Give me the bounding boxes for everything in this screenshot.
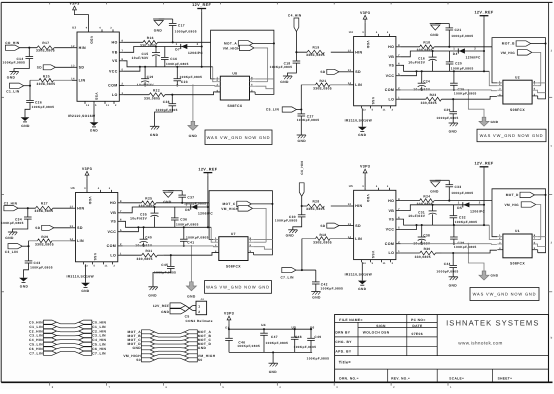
svg-text:5: 5 bbox=[372, 108, 374, 111]
bus1 row C2_HIN (right flag) bbox=[79, 329, 107, 333]
ground IC VSS (block3 mid-left) bbox=[81, 264, 90, 293]
wire loop to U pin1 bbox=[492, 47, 497, 83]
svg-text:6: 6 bbox=[534, 88, 536, 91]
capacitor C36 100KpF,0805 (bootstrap) bbox=[171, 207, 199, 227]
ground C34 bbox=[5, 232, 17, 240]
input flag C4_HIN (vertical) bbox=[288, 14, 302, 32]
svg-text:C45: C45 bbox=[161, 263, 168, 267]
svg-text:GND: GND bbox=[430, 33, 439, 37]
svg-text:IR2110,SO16W: IR2110,SO16W bbox=[345, 119, 373, 123]
bus1 row C4_HIN (right flag) bbox=[79, 338, 107, 342]
wire 12V_REF down bbox=[483, 170, 485, 226]
svg-text:VS: VS bbox=[389, 64, 395, 68]
wire SD bbox=[339, 71, 349, 73]
junction VCC/rail bbox=[139, 66, 141, 68]
bus2 row VM_HIGH (left flag) bbox=[123, 354, 154, 358]
flag MOT_D bbox=[506, 192, 535, 197]
wire VS bbox=[401, 65, 490, 71]
bus2 row MOT_B (right flag) bbox=[184, 334, 211, 338]
svg-text:MOT_D: MOT_D bbox=[506, 193, 519, 197]
wire COM to U pin3 bbox=[492, 243, 497, 246]
svg-text:C23: C23 bbox=[181, 80, 188, 84]
svg-text:c: c bbox=[551, 145, 553, 148]
svg-text:330,0805: 330,0805 bbox=[137, 257, 153, 261]
resistor R19 330E,0805 (HIN) bbox=[306, 46, 325, 57]
svg-text:6: 6 bbox=[534, 241, 536, 244]
bus2 row MOT_B (left flag) bbox=[128, 334, 155, 338]
bus1 row C5_LIN (right flag) bbox=[79, 342, 106, 346]
svg-text:100KpF,0805: 100KpF,0805 bbox=[32, 105, 55, 109]
svg-text:C33: C33 bbox=[455, 185, 462, 189]
wire U pin5 step bbox=[253, 252, 255, 255]
capacitor C27 100KpF,0805 (LIN filter) bbox=[297, 110, 320, 136]
svg-text:VCC: VCC bbox=[386, 74, 395, 78]
svg-text:GND: GND bbox=[150, 133, 159, 137]
svg-text:100KpF,0805: 100KpF,0805 bbox=[266, 341, 289, 345]
svg-text:LIN: LIN bbox=[355, 83, 362, 87]
ground C27 bbox=[297, 135, 307, 143]
svg-text:C0_HIN: C0_HIN bbox=[29, 320, 43, 324]
wire VCC bbox=[401, 71, 417, 75]
svg-text:2: 2 bbox=[215, 240, 217, 243]
wire LIN flag bbox=[22, 245, 28, 247]
svg-text:100KpF,0805: 100KpF,0805 bbox=[451, 66, 474, 70]
wire COM bbox=[401, 243, 492, 245]
svg-text:COM: COM bbox=[385, 242, 395, 246]
bus2 row MOT_A (right flag) bbox=[184, 330, 211, 334]
svg-text:VS: VS bbox=[112, 59, 118, 63]
gate driver IC U3 IR2110,SO16W bbox=[77, 32, 119, 101]
wire HIN input bbox=[302, 196, 307, 206]
svg-text:DRN BY: DRN BY bbox=[335, 331, 350, 335]
capacitor C46 100KpF,0805 (V3P3 filter) bbox=[225, 329, 260, 352]
svg-text:13: 13 bbox=[85, 264, 89, 267]
svg-text:3: 3 bbox=[215, 244, 217, 247]
svg-text:1: 1 bbox=[453, 48, 455, 51]
bus1 row C2_HIN (left flag) bbox=[29, 329, 57, 333]
svg-text:11: 11 bbox=[106, 104, 110, 107]
svg-text:WOLOCH DSN: WOLOCH DSN bbox=[363, 331, 390, 335]
ground IC VSS (block4 mid-right) bbox=[358, 262, 367, 291]
svg-text:12V_REF: 12V_REF bbox=[192, 3, 211, 7]
svg-text:WAS VW_GND NOW GND: WAS VW_GND NOW GND bbox=[206, 285, 270, 290]
ground COM (block4 mid-right) arrow bbox=[479, 271, 499, 280]
wire HO to loop bbox=[434, 200, 492, 202]
svg-text:GND: GND bbox=[280, 80, 289, 84]
bus2 row nc (left flag) bbox=[142, 350, 155, 354]
junction VB/12V_REF bbox=[201, 45, 203, 47]
svg-text:330E,0805: 330E,0805 bbox=[37, 82, 56, 86]
capacitor C19 10uF/63V (VCC) bbox=[137, 67, 155, 87]
bus1 row C6_HIN (left flag) bbox=[29, 347, 57, 351]
junction C49 bbox=[310, 328, 312, 330]
svg-text:GND: GND bbox=[154, 28, 163, 32]
capacitor C21 1000pF,0805 bbox=[435, 24, 473, 47]
svg-text:2: 2 bbox=[217, 79, 219, 82]
bus2 wire GND bbox=[155, 347, 185, 349]
svg-text:V3P3: V3P3 bbox=[360, 11, 370, 15]
svg-text:V3P3: V3P3 bbox=[82, 167, 92, 171]
border zone ticks right bbox=[1, 50, 552, 340]
svg-text:GND: GND bbox=[358, 287, 367, 291]
junction C23 bbox=[176, 66, 178, 68]
svg-text:U4: U4 bbox=[261, 323, 266, 327]
resistor R21 330E,0805 (LIN) bbox=[313, 79, 332, 91]
svg-text:5: 5 bbox=[534, 247, 536, 250]
capacitor C32 100KpF,0805 (bootstrap) bbox=[450, 205, 478, 225]
svg-text:LIN: LIN bbox=[355, 237, 362, 241]
wire 12V_REF down bbox=[207, 175, 209, 227]
svg-text:10uF/63V: 10uF/63V bbox=[132, 56, 150, 60]
bus2 wire MOT_D bbox=[155, 343, 185, 345]
wire VM vertical to pin7 bbox=[538, 85, 541, 87]
svg-text:VM_HIGH: VM_HIGH bbox=[223, 46, 241, 50]
bus2 wire MOT_C bbox=[155, 339, 185, 342]
input flag SD bbox=[37, 65, 56, 70]
svg-text:C5_LIN: C5_LIN bbox=[29, 343, 43, 347]
svg-text:GND: GND bbox=[286, 234, 295, 238]
svg-text:C19: C19 bbox=[147, 75, 154, 79]
svg-text:R29: R29 bbox=[41, 235, 48, 239]
svg-text:GND: GND bbox=[133, 346, 142, 350]
wire VM_HIGH to U pin7 bbox=[536, 205, 541, 240]
wire U pin5 step bbox=[537, 96, 539, 99]
svg-text:100KpF,0805: 100KpF,0805 bbox=[186, 236, 209, 240]
svg-text:2: 2 bbox=[551, 242, 553, 245]
wire LIN flag bbox=[296, 269, 316, 271]
svg-text:WAS VW_GND NOW GND: WAS VW_GND NOW GND bbox=[480, 133, 544, 138]
svg-text:C3_LIN: C3_LIN bbox=[92, 334, 106, 338]
svg-text:1: 1 bbox=[186, 204, 188, 207]
wire V3P3 to VDD bbox=[364, 22, 366, 34]
ground COM (block3 mid-left) arrow bbox=[186, 282, 196, 299]
svg-text:2: 2 bbox=[474, 48, 476, 51]
svg-text:100KpF,0805: 100KpF,0805 bbox=[321, 287, 344, 291]
wire VCC bbox=[124, 67, 140, 71]
svg-text:2: 2 bbox=[114, 264, 116, 267]
svg-text:GND: GND bbox=[187, 294, 196, 298]
bus2 row MOT_A (left flag) bbox=[128, 330, 155, 334]
wire VS to U pin2 bbox=[489, 225, 497, 239]
wire R to HIN pin bbox=[53, 207, 71, 209]
svg-text:5: 5 bbox=[122, 68, 124, 71]
wire LIN flag bbox=[296, 109, 301, 111]
svg-text:7: 7 bbox=[250, 240, 252, 243]
capacitor C16 100KpF,0805 (bootstrap) bbox=[161, 47, 189, 67]
bus1 row C3_LIN (right flag) bbox=[79, 334, 106, 338]
svg-text:2: 2 bbox=[398, 87, 400, 90]
junction C41 bbox=[183, 226, 185, 228]
wire 12V_REF down bbox=[201, 11, 203, 67]
bus2 wire MOT_B bbox=[155, 336, 185, 337]
wire VM_HIGH to U pin7 bbox=[532, 52, 541, 85]
wire LIN branch bbox=[30, 79, 39, 81]
svg-text:330E,0805: 330E,0805 bbox=[306, 207, 325, 211]
svg-text:GND: GND bbox=[491, 120, 499, 124]
pins U2 bbox=[497, 80, 537, 96]
wire MOT to loop bbox=[251, 203, 272, 205]
wire U pin8 to loop bbox=[538, 82, 546, 84]
svg-text:3: 3 bbox=[499, 241, 501, 244]
wire V3P3 rail bbox=[228, 323, 230, 329]
svg-text:GND: GND bbox=[298, 139, 307, 143]
capacitor C40 10uF/63V (VCC) bbox=[135, 227, 153, 247]
svg-text:GND: GND bbox=[5, 236, 14, 240]
svg-text:330,0805: 330,0805 bbox=[421, 101, 437, 105]
svg-text:6: 6 bbox=[122, 58, 124, 61]
svg-text:HIN: HIN bbox=[355, 50, 362, 54]
svg-text:HO: HO bbox=[388, 45, 394, 49]
svg-text:IR2110,SO16W: IR2110,SO16W bbox=[67, 275, 95, 279]
svg-text:GND: GND bbox=[81, 289, 90, 293]
junction VB/12V_REF bbox=[483, 204, 485, 206]
wire U pin5 step bbox=[537, 250, 539, 253]
bus1 wire C4_HIN bbox=[57, 339, 79, 341]
svg-text:1000pF,0805: 1000pF,0805 bbox=[156, 108, 178, 112]
svg-text:VB: VB bbox=[389, 209, 395, 213]
capacitor C42 100KpF,0805 (LIN filter) bbox=[312, 270, 343, 291]
power V3P3 (block4 mid-right) bbox=[360, 165, 370, 176]
svg-text:6: 6 bbox=[120, 219, 122, 222]
resistor R22 330,0805 (LO gate) bbox=[124, 89, 165, 101]
bus1 row C7_LIN (left flag) bbox=[29, 351, 56, 355]
flag VM_HIGH bbox=[223, 45, 254, 50]
ground C44 bbox=[449, 277, 458, 288]
svg-text:1206IPC: 1206IPC bbox=[470, 210, 485, 214]
svg-text:9: 9 bbox=[362, 31, 364, 34]
svg-text:9: 9 bbox=[84, 187, 86, 190]
wire U pin6 bbox=[538, 244, 546, 247]
svg-text:GND: GND bbox=[449, 130, 458, 134]
component U1 S08FCX (half-bridge FET) bbox=[503, 229, 532, 265]
svg-text:SCALE=: SCALE= bbox=[449, 377, 464, 381]
svg-text:DATE: DATE bbox=[412, 324, 423, 328]
wire VS bbox=[124, 61, 213, 67]
svg-text:DRN. NO.=: DRN. NO.= bbox=[339, 377, 359, 381]
svg-text:SD: SD bbox=[355, 70, 361, 74]
svg-text:CHG. BY: CHG. BY bbox=[335, 340, 352, 344]
input flag C1_LIN bbox=[6, 83, 23, 94]
junction C31/VB bbox=[432, 204, 434, 206]
svg-text:GND: GND bbox=[161, 310, 170, 314]
capacitor C47 100KpF,0805 (V3P3 filter) bbox=[260, 329, 288, 352]
svg-text:C49: C49 bbox=[314, 335, 321, 339]
junction C28/LO bbox=[171, 94, 173, 96]
wire SD bbox=[54, 227, 71, 229]
wire VCC bbox=[123, 227, 139, 231]
svg-text:8: 8 bbox=[120, 200, 122, 203]
wire R to HIN pin bbox=[331, 51, 349, 53]
capacitor C48 100KpF,0805 (V3P3 filter) bbox=[291, 329, 316, 352]
wire U pin8 to loop bbox=[538, 236, 546, 238]
wire HO to loop bbox=[434, 46, 492, 48]
svg-text:MOT_C: MOT_C bbox=[223, 202, 236, 206]
svg-text:VS: VS bbox=[389, 217, 395, 221]
svg-text:VDD: VDD bbox=[90, 36, 94, 44]
svg-text:D5: D5 bbox=[457, 206, 462, 210]
svg-text:HIN: HIN bbox=[355, 204, 362, 208]
svg-text:V3P3: V3P3 bbox=[224, 312, 234, 316]
wire HO loop (MOT net) bbox=[211, 30, 274, 94]
svg-text:3: 3 bbox=[109, 187, 111, 190]
flag GND (CON2) bbox=[161, 309, 185, 314]
capacitor C16 10uF/63V (bootstrap) bbox=[408, 51, 436, 71]
svg-text:3: 3 bbox=[387, 185, 389, 188]
resistor R30 330,0805 (LO gate) bbox=[401, 247, 436, 259]
pins U8 bbox=[215, 76, 255, 92]
bus1 row C7_LIN (right flag) bbox=[79, 351, 106, 355]
power V3P3 (filter rail) bbox=[224, 312, 234, 323]
ground C21 bbox=[430, 24, 441, 37]
svg-text:CO_HIN: CO_HIN bbox=[5, 41, 20, 45]
svg-text:HO: HO bbox=[388, 199, 394, 203]
svg-text:4: 4 bbox=[99, 27, 101, 30]
ground C28 bbox=[150, 126, 159, 137]
svg-text:LIN: LIN bbox=[77, 239, 84, 243]
svg-text:C26: C26 bbox=[35, 100, 42, 104]
wire R to LIN pin bbox=[52, 240, 71, 242]
junction VB/12V_REF bbox=[207, 206, 209, 208]
bus1 wire C5_LIN bbox=[57, 343, 79, 346]
diode D7 1206IPC (bootstrap) bbox=[175, 43, 203, 55]
wire V3P3 to VDD bbox=[364, 176, 366, 188]
svg-text:GND: GND bbox=[449, 283, 458, 287]
bus2 row MOT_D (left flag) bbox=[128, 342, 155, 346]
svg-text:C7_LIN: C7_LIN bbox=[281, 276, 295, 280]
bus2 wire VM_HIGH bbox=[155, 355, 185, 356]
resistor R16 330,0805 (HO gate) bbox=[124, 36, 158, 48]
svg-text:FILE NAME=: FILE NAME= bbox=[339, 318, 363, 322]
svg-text:S0: S0 bbox=[198, 358, 203, 362]
svg-text:100KpF,0805: 100KpF,0805 bbox=[270, 65, 293, 69]
svg-text:1000pF,0805: 1000pF,0805 bbox=[451, 191, 473, 195]
svg-text:HIN: HIN bbox=[79, 46, 86, 50]
svg-text:R19: R19 bbox=[313, 46, 320, 50]
border zone ticks bottom bbox=[50, 382, 448, 385]
svg-text:C36: C36 bbox=[180, 218, 187, 222]
svg-text:7: 7 bbox=[122, 50, 124, 53]
svg-text:1206IPC: 1206IPC bbox=[188, 51, 203, 55]
junction MOT bbox=[544, 42, 546, 44]
svg-text:U2: U2 bbox=[515, 75, 520, 79]
svg-text:SD: SD bbox=[77, 226, 83, 230]
svg-text:2: 2 bbox=[115, 104, 117, 107]
bus1 row C5_LIN (left flag) bbox=[29, 342, 56, 346]
wire SD bbox=[55, 66, 72, 68]
svg-text:7: 7 bbox=[120, 210, 122, 213]
svg-text:1000pF,0805: 1000pF,0805 bbox=[436, 270, 458, 274]
svg-text:C16: C16 bbox=[170, 57, 177, 61]
bus2 row MOT_D (right flag) bbox=[184, 342, 211, 346]
wire U pin6 bbox=[538, 90, 546, 93]
junction C38 bbox=[421, 224, 423, 226]
svg-text:GND: GND bbox=[198, 346, 207, 350]
power 12V_REF (block2 top-right) bbox=[474, 10, 493, 18]
svg-text:VDD: VDD bbox=[366, 41, 370, 49]
svg-text:5: 5 bbox=[534, 93, 536, 96]
note box WAS VW_GND NOW GND (block3 mid-left) bbox=[205, 281, 272, 294]
junction LIN bbox=[300, 108, 302, 110]
svg-text:VDD: VDD bbox=[366, 194, 370, 202]
svg-text:R21: R21 bbox=[320, 79, 327, 83]
input flag C5_LIN bbox=[266, 107, 297, 112]
svg-text:7: 7 bbox=[534, 83, 536, 86]
svg-text:R27: R27 bbox=[41, 202, 48, 206]
svg-text:MOT_B: MOT_B bbox=[502, 42, 515, 46]
ground IC VSS (block1 top-left) bbox=[90, 104, 99, 133]
svg-text:GND: GND bbox=[312, 296, 321, 300]
capacitor C45 1000pF,0805 (LO) bbox=[153, 255, 176, 287]
svg-text:2: 2 bbox=[122, 83, 124, 86]
capacitor C49 100KpF,0805 (V3P3 filter) bbox=[307, 329, 330, 360]
svg-text:1: 1 bbox=[122, 92, 124, 95]
wire U pin6 bbox=[255, 86, 274, 89]
svg-text:4: 4 bbox=[376, 31, 378, 34]
svg-text:R28: R28 bbox=[313, 200, 320, 204]
junction C19 bbox=[144, 66, 146, 68]
wire VB bootstrap bbox=[124, 47, 202, 53]
wire HO loop (MOT net) bbox=[492, 189, 546, 253]
svg-text:C3_LIN: C3_LIN bbox=[29, 334, 43, 338]
power 12V_REF (block4 mid-right) bbox=[474, 162, 493, 170]
junction C16/VB bbox=[432, 50, 434, 52]
note box WAS VW_GND NOW GND (block2 top-right) bbox=[477, 129, 546, 142]
svg-text:4: 4 bbox=[499, 247, 501, 250]
svg-text:5: 5 bbox=[398, 73, 400, 76]
svg-text:COM: COM bbox=[385, 88, 395, 92]
svg-text:C2_HIN: C2_HIN bbox=[29, 329, 43, 333]
svg-text:V3P3: V3P3 bbox=[69, 2, 79, 6]
svg-text:GND: GND bbox=[430, 190, 439, 194]
svg-text:R24: R24 bbox=[423, 194, 430, 198]
capacitor C33 1000pF,0805 bbox=[435, 180, 473, 200]
junction VCC/rail bbox=[415, 224, 417, 226]
junction HO/C17 bbox=[172, 41, 174, 43]
power 12V_REF (block3 mid-left) bbox=[198, 167, 217, 175]
junction HIN/C18 bbox=[295, 51, 297, 53]
svg-text:LIN: LIN bbox=[79, 79, 86, 83]
junction VB/12V_REF bbox=[483, 50, 485, 52]
border zone numerals bottom bbox=[52, 386, 452, 389]
note box WAS VW_GND NOW GND (block1 top-left) bbox=[205, 130, 272, 145]
svg-text:C40: C40 bbox=[145, 236, 152, 240]
svg-text:2: 2 bbox=[197, 43, 199, 46]
svg-text:LO: LO bbox=[110, 253, 116, 257]
capacitor C38 10uF/63V (VCC) bbox=[413, 225, 431, 245]
gate driver IC U5 IR2110,SO16W bbox=[354, 190, 396, 259]
svg-text:5: 5 bbox=[251, 89, 253, 92]
capacitor C14 100KpF,0805 (HIN filter) bbox=[3, 48, 34, 72]
svg-text:R16: R16 bbox=[147, 36, 154, 40]
svg-text:10uF/63V: 10uF/63V bbox=[408, 214, 426, 218]
svg-text:2: 2 bbox=[499, 237, 501, 240]
wire U pin8 to loop bbox=[254, 238, 273, 240]
svg-text:GND: GND bbox=[90, 129, 99, 133]
junction HO/C37 bbox=[181, 202, 183, 204]
gate driver IC U4 IR2110,SO16W bbox=[354, 37, 396, 106]
capacitor C15 10uF/63V (bootstrap) bbox=[132, 47, 160, 67]
junction C40 bbox=[143, 226, 145, 228]
junction C15/VB bbox=[155, 45, 157, 47]
svg-text:330,0805: 330,0805 bbox=[144, 97, 160, 101]
svg-text:C1_LIN: C1_LIN bbox=[6, 90, 20, 94]
svg-text:J4: J4 bbox=[201, 298, 205, 301]
wire VS to U pin2 bbox=[211, 227, 213, 242]
wire LIN branch bbox=[29, 240, 38, 242]
svg-text:330E,0805: 330E,0805 bbox=[36, 49, 55, 53]
wire COM bbox=[123, 245, 214, 247]
ground C14 bbox=[7, 72, 19, 80]
